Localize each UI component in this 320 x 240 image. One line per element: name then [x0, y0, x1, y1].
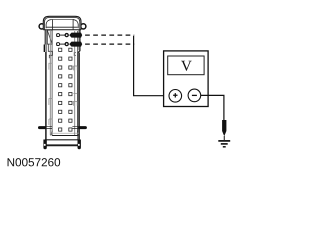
wire from leads down to voltmeter plus terminal	[134, 36, 169, 96]
body left outer edge	[44, 30, 46, 45]
cap window corner curve left	[46, 20, 52, 29]
wire from minus terminal to ground probe	[201, 95, 224, 120]
side pin left	[38, 126, 52, 129]
plus sign	[173, 93, 177, 97]
probe 1 collar ring	[65, 34, 68, 37]
cap right mounting ring	[81, 24, 86, 29]
body right inner line upper	[78, 30, 80, 51]
voltmeter plus terminal	[169, 90, 182, 103]
cap window corner curve right	[73, 20, 79, 29]
probe 1 terminal pin (D shape)	[57, 34, 60, 37]
ground probe lead	[223, 136, 225, 140]
cap section divider right	[72, 19, 74, 30]
probe 2 collar ring	[65, 43, 68, 46]
voltmeter minus terminal	[188, 89, 201, 102]
body right second edge lower	[79, 53, 81, 140]
voltmeter body	[164, 51, 209, 107]
probe 2 terminal pin (D shape)	[57, 43, 60, 46]
interior channel line right	[74, 31, 76, 135]
body left latch bump	[44, 45, 46, 53]
cap window top line	[52, 19, 73, 21]
test lead 2 (dashed wire)	[85, 43, 134, 45]
body left inner line	[46, 30, 48, 140]
figure label N0057260	[8, 158, 61, 166]
ground symbol	[218, 141, 230, 147]
base right foot	[78, 140, 81, 150]
voltmeter display window	[168, 56, 204, 75]
keying notch rectangle with diagonal (top-left)	[47, 30, 52, 44]
ground probe tip (black)	[222, 120, 226, 136]
voltmeter V label	[181, 61, 192, 71]
body left outer edge lower	[45, 52, 47, 140]
base left foot	[43, 140, 46, 150]
probe 2 shaft	[60, 43, 66, 45]
probe 1 shaft	[60, 34, 66, 36]
interior bracket marks	[49, 63, 77, 125]
minus sign	[192, 94, 197, 96]
interior channel line left	[49, 31, 51, 135]
cap bottom line	[43, 29, 81, 31]
glow plug module connector: cap	[43, 16, 81, 30]
right rail notch	[74, 53, 76, 56]
base pedestal	[45, 140, 79, 146]
probe 1 tip (black)	[69, 33, 82, 38]
cap inner outline	[45, 18, 80, 30]
body right outer edge with step	[78, 30, 80, 140]
side pin right	[72, 126, 87, 129]
cap outer outline	[43, 16, 81, 30]
test lead 1 (dashed wire)	[85, 34, 134, 36]
cap section divider left	[52, 19, 54, 30]
cap shroud bottom line	[47, 26, 78, 28]
terminal cavities (squares)	[59, 48, 72, 131]
left rail hook profile	[48, 44, 52, 58]
ladder bottom skirt flares	[51, 131, 79, 136]
terminal ladder frame	[51, 31, 79, 136]
cap left mounting ring	[39, 24, 44, 29]
probe 2 tip (black)	[69, 42, 82, 47]
